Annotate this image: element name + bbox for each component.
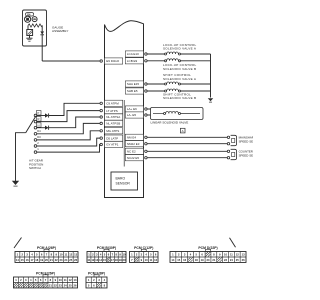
svg-text:22: 22 [54, 283, 57, 287]
PCM left pin GY ATP1 [100, 141, 123, 147]
svg-text:20: 20 [123, 258, 126, 262]
gauge assembly box [23, 10, 47, 46]
svg-text:11: 11 [149, 258, 152, 262]
svg-text:LT ATPS: LT ATPS [106, 109, 118, 113]
svg-text:13: 13 [242, 252, 245, 256]
connector PCM B(30P) [87, 246, 126, 263]
ground G101 [208, 98, 213, 102]
connector A marker [180, 128, 185, 133]
svg-text:SPEED SENSOR: SPEED SENSOR [239, 139, 253, 143]
svg-text:18: 18 [35, 258, 38, 262]
countershaft speed sensor [227, 149, 236, 159]
svg-text:26: 26 [74, 258, 77, 262]
svg-text:21: 21 [212, 258, 215, 262]
svg-text:R: R [38, 117, 40, 121]
switch contact 4 [34, 129, 41, 135]
svg-text:16: 16 [183, 258, 186, 262]
switch wiper arm [26, 116, 36, 133]
svg-text:GY ATP1: GY ATP1 [106, 143, 119, 147]
resistor R1 (gauge) [28, 24, 42, 27]
svg-text:11: 11 [64, 252, 67, 256]
countershaft speed sensor label [239, 150, 263, 158]
label LOCK-UP CONTROL SOLENOID VALVE A [163, 43, 197, 51]
svg-text:24: 24 [64, 283, 67, 287]
svg-text:26: 26 [74, 283, 77, 287]
svg-text:25: 25 [69, 258, 72, 262]
svg-text:SOLENOID VALVE B: SOLENOID VALVE B [163, 96, 196, 100]
wire contact 5 to PCM [37, 131, 100, 140]
solenoid ground bus wire [210, 54, 212, 98]
svg-text:D3: D3 [37, 135, 41, 139]
section break mark right [230, 238, 236, 247]
wire NM22 [147, 143, 227, 145]
wire [29, 36, 31, 39]
svg-text:LCA E10: LCA E10 [127, 52, 139, 56]
svg-text:10: 10 [60, 252, 63, 256]
switch contact 1 [34, 111, 41, 117]
wire [27, 26, 29, 30]
internal bus line [123, 100, 125, 167]
svg-text:SHB E5: SHB E5 [127, 89, 138, 93]
wire [181, 60, 211, 62]
section break mark left [14, 238, 22, 249]
switch common wire [16, 133, 26, 181]
D4 indicator capsule [26, 13, 34, 17]
PCM left pin LT ATPS [100, 108, 123, 114]
svg-text:17: 17 [30, 258, 33, 262]
gauge assembly label [52, 26, 68, 34]
svg-text:P: P [38, 111, 40, 115]
svg-text:13: 13 [74, 278, 77, 282]
wire contact 6 to PCM [37, 138, 100, 146]
svg-text:LCB E9: LCB E9 [127, 59, 138, 63]
svg-text:NC22 E5: NC22 E5 [127, 156, 140, 160]
svg-text:SPEED SENSOR: SPEED SENSOR [239, 153, 253, 157]
PCM right pin NC E2 [125, 148, 147, 154]
svg-text:18: 18 [195, 258, 198, 262]
wire LA- [147, 114, 150, 116]
svg-text:19: 19 [201, 258, 204, 262]
PCM left pin E9 D4GO [100, 58, 123, 64]
svg-text:SOLENOID VALVE A: SOLENOID VALVE A [163, 77, 197, 81]
wire NC [147, 150, 227, 152]
solenoid coil B [165, 59, 181, 62]
svg-text:10: 10 [224, 252, 227, 256]
connector PCM C(12P) [130, 246, 159, 263]
svg-text:10: 10 [59, 278, 62, 282]
connector PCM D(22P) [170, 246, 246, 263]
wire to solenoid C [147, 83, 164, 85]
PCM right pin LA+ E6 [125, 106, 147, 112]
wire contact 1 to PCM [37, 103, 100, 117]
PCM right pin LCB E9 [125, 58, 147, 64]
svg-text:ASSEMBLY: ASSEMBLY [52, 29, 68, 33]
svg-text:D5 LATP: D5 LATP [106, 136, 118, 140]
wire LA+ [147, 108, 150, 110]
svg-text:15: 15 [177, 258, 180, 262]
wire from gauge to PCM [42, 35, 100, 61]
solenoid coil C [165, 82, 181, 85]
wire NC22 [147, 157, 227, 159]
svg-text:NL ATPSA: NL ATPSA [106, 115, 120, 119]
A/T gear position switch label [29, 159, 44, 171]
svg-text:24: 24 [230, 258, 233, 262]
mainshaft speed sensor label [239, 136, 262, 144]
svg-text:25: 25 [236, 258, 239, 262]
PCM right pin LCA E10 [125, 51, 147, 57]
svg-text:25: 25 [69, 283, 72, 287]
PCM left pin NL ATPSA [100, 114, 123, 120]
svg-text:A: A [182, 129, 184, 133]
BARO sensor box [111, 172, 138, 190]
svg-text:12: 12 [69, 252, 72, 256]
PCM right pin NM E4 [125, 134, 147, 140]
indicator bulb L1 [25, 16, 31, 22]
solenoid coil D [165, 89, 181, 92]
svg-text:LINEAR SOLENOID VALVE: LINEAR SOLENOID VALVE [151, 121, 189, 125]
svg-text:16: 16 [26, 258, 29, 262]
label SHIFT CONTROL SOLENOID VALVE B [163, 92, 196, 100]
svg-text:10: 10 [145, 258, 148, 262]
svg-text:12: 12 [154, 258, 157, 262]
svg-text:LA+ E6: LA+ E6 [127, 107, 137, 111]
switch contact 3 [34, 123, 41, 129]
PCM right pin SHB E5 [125, 88, 147, 94]
wire contact 7 to PCM [37, 145, 100, 153]
svg-text:NL ATPSB: NL ATPSB [106, 122, 120, 126]
mainshaft speed sensor [227, 135, 236, 145]
svg-text:D4: D4 [37, 129, 41, 133]
svg-text:C9 ATPM: C9 ATPM [106, 102, 119, 106]
switch contact 5 [34, 135, 41, 141]
svg-text:N: N [38, 123, 40, 127]
PCM left pin MG ATPS [100, 128, 123, 134]
svg-text:E9 D4GO: E9 D4GO [106, 59, 120, 63]
wire contact 3 to PCM [37, 117, 100, 130]
svg-text:26: 26 [242, 258, 245, 262]
svg-text:SENSOR: SENSOR [116, 181, 131, 185]
switch contact 2 [34, 117, 41, 123]
svg-text:20: 20 [45, 258, 48, 262]
svg-text:19: 19 [40, 258, 43, 262]
svg-text:15: 15 [21, 258, 24, 262]
switch contact 6 [34, 141, 39, 147]
ground (gauge) [26, 38, 32, 41]
svg-text:SOLENOID VALVE A: SOLENOID VALVE A [163, 47, 197, 51]
svg-text:15: 15 [103, 258, 106, 262]
wire [181, 53, 211, 55]
svg-text:20: 20 [207, 258, 210, 262]
svg-text:12: 12 [236, 252, 239, 256]
indicator bulb L2 [32, 17, 37, 22]
label LOCK-UP CONTROL SOLENOID VALVE B [163, 63, 196, 71]
PCM right pin SHA E15 [125, 81, 147, 87]
connector PCM A(26P) [15, 246, 78, 263]
PCM left pin NL ATPSB [100, 120, 123, 126]
wire [41, 25, 43, 31]
PCM right pin LA- E5 [125, 112, 147, 118]
svg-text:24: 24 [64, 258, 67, 262]
svg-text:12: 12 [69, 278, 72, 282]
svg-text:11: 11 [64, 278, 67, 282]
wire [181, 90, 211, 92]
PCM (powertrain control module) outline [105, 21, 144, 198]
connector PCM F(8P) [86, 271, 107, 288]
diode D1 (gauge) [40, 31, 44, 34]
wire to solenoid B [147, 60, 164, 62]
svg-text:SWITCH: SWITCH [29, 166, 41, 170]
wire to solenoid A [147, 53, 164, 55]
svg-text:NM E4: NM E4 [127, 136, 136, 140]
PCM left pin D5 LATP [100, 135, 123, 141]
svg-text:23: 23 [60, 258, 63, 262]
label SHIFT CONTROL SOLENOID VALVE A [163, 73, 197, 81]
thermal sender box [27, 30, 33, 36]
linear solenoid coil [153, 111, 200, 114]
svg-text:14: 14 [171, 258, 174, 262]
svg-text:NC E2: NC E2 [127, 150, 136, 154]
svg-text:21: 21 [49, 283, 52, 287]
svg-text:11: 11 [230, 252, 233, 256]
wire contact 4 to PCM [37, 123, 100, 133]
svg-text:BARO: BARO [116, 177, 126, 181]
linear solenoid valve box [151, 108, 204, 120]
PCM left pin C9 ATPM [100, 100, 123, 106]
svg-text:21: 21 [50, 258, 53, 262]
svg-text:MG ATPS: MG ATPS [106, 129, 119, 133]
wire NM [147, 136, 227, 138]
svg-text:10: 10 [123, 252, 126, 256]
svg-text:22: 22 [55, 258, 58, 262]
switch contact 7 [34, 147, 39, 153]
svg-text:23: 23 [224, 258, 227, 262]
solenoid coil A [165, 52, 181, 55]
ground G101 (switch) [12, 181, 19, 186]
wire contact 2 to PCM [37, 111, 100, 122]
svg-text:14: 14 [16, 258, 19, 262]
PCM right pin NM22 E3 [125, 141, 147, 147]
svg-text:23: 23 [59, 283, 62, 287]
wire to solenoid D [147, 90, 164, 92]
svg-text:SOLENOID VALVE B: SOLENOID VALVE B [163, 67, 196, 71]
PCM right pin NC22 E5 [125, 155, 147, 161]
svg-text:13: 13 [74, 252, 77, 256]
connector PCM E(26P) [14, 271, 78, 288]
wire [181, 83, 211, 85]
svg-text:NM22 E3: NM22 E3 [127, 142, 140, 146]
svg-text:LA- E5: LA- E5 [127, 113, 137, 117]
svg-text:SHA E15: SHA E15 [127, 82, 140, 86]
